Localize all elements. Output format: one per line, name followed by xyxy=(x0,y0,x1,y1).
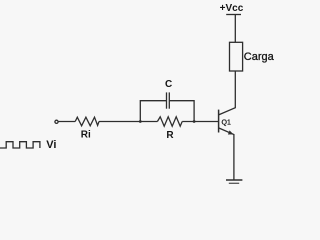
svg-text:Ri: Ri xyxy=(81,130,91,141)
svg-text:C: C xyxy=(165,79,172,90)
svg-text:+Vcc: +Vcc xyxy=(220,3,244,14)
svg-text:R: R xyxy=(166,130,174,141)
svg-text:Vi: Vi xyxy=(46,139,56,151)
svg-text:Carga: Carga xyxy=(244,51,275,63)
svg-text:Q1: Q1 xyxy=(222,120,231,127)
